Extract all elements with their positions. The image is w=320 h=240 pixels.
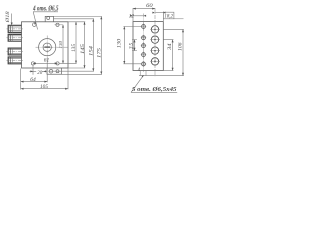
dim 20 ext from hole [32,65,34,75]
right vertical dim 135 [75,22,77,64]
bottom tab of body [47,68,62,74]
svg-text:12: 12 [129,14,135,20]
svg-text:35: 35 [130,43,135,50]
svg-text:130: 130 [58,40,63,48]
small hole 2 [142,36,146,40]
dim 130 line [123,27,125,64]
dim Ø18 line top-left [11,14,13,26]
right port column centerline [154,8,156,76]
center bore outer circle [39,39,56,56]
countersink ticks below plate [140,71,146,76]
svg-text:175: 175 [97,48,103,58]
svg-text:106: 106 [177,42,183,51]
dim 60 line [133,8,155,10]
svg-text:64: 64 [30,77,36,83]
tab1 centerline [7,28,24,30]
dim 130 ext top [123,26,141,28]
svg-text:34: 34 [166,43,173,50]
small hole 3 [142,44,146,48]
boss hole [47,17,50,20]
dim 60 ext left [132,8,134,21]
ext line tab bottom to dim 175 [62,73,103,75]
corner hole bottom-right [56,62,59,65]
right vertical dim 130 (hole to hole) [62,25,64,64]
svg-text:135: 135 [72,43,77,52]
corner hole top-right centerline [55,24,63,26]
leader to 5 holes label [131,75,144,92]
label underline 4 otv [33,11,58,13]
ext line boss top to dim 175 [54,16,103,18]
small hole 4 [142,53,146,57]
port circle 3 [151,47,158,54]
frame box 18,2 [163,12,174,19]
svg-text:145: 145 [80,44,86,54]
left view: top boss [45,16,53,21]
tab4 inner line [12,57,14,64]
right vertical dim 145 [84,22,86,68]
center bore inner circle [43,43,51,51]
left side tab 4 [8,57,21,64]
dim 35 ext ticks [132,40,137,51]
small hole 5 [142,62,146,66]
svg-text:18,2: 18,2 [164,14,173,20]
small hole 1 [142,25,146,29]
dim 18,2 ext right edge [162,12,164,22]
dim 34 line [172,40,174,71]
label underline 5 otv [131,91,177,93]
dim 18,2 line [155,12,163,14]
dim 106 bottom line [139,75,184,77]
corner hole top-right [56,23,59,26]
bottom tab hole left [49,69,53,73]
dim 64 line [21,81,48,83]
left side tab 2 [8,34,21,41]
tab2 inner line [12,34,14,41]
ext line body top to dims [68,21,85,23]
corner hole top-left [33,23,37,27]
dim 130 ext bottom [123,63,141,65]
dim 34 ext top [163,39,173,41]
dim 61 ext right [59,62,76,64]
horizontal centerline of body [36,46,69,48]
port circle 1 [151,26,158,33]
left view: main body outline [22,22,69,68]
svg-text:130: 130 [117,38,123,48]
dim 105 ext left lower [20,82,22,89]
tab3 inner line [12,48,14,55]
port circle 2 [151,36,158,43]
corner hole bottom-left [31,62,34,65]
svg-text:60: 60 [146,3,153,9]
svg-text:105: 105 [40,84,48,90]
line under box to right [174,18,184,20]
dim 106 line [182,29,184,75]
dim 105 ext right [67,69,69,90]
dim 105 line [21,88,68,90]
ext line body bottom to dims [68,67,85,69]
svg-text:61: 61 [44,58,50,64]
dim 64 ext left [20,69,22,83]
center dot [44,46,50,48]
ext line boss mid to dim 154 [54,18,95,20]
left side tab 1 [8,25,21,32]
dim 35 line [134,40,136,51]
svg-text:154: 154 [89,46,95,56]
bottom tab hole right [56,70,59,73]
left hole column centerline [143,14,145,72]
dim 20 line [30,70,47,72]
plate outline [133,22,163,71]
port circle 4 [151,58,158,65]
dim 34 ext bottom (plate bottom extended) [163,70,173,72]
ext line tab hole centerline to dim 154 [48,70,94,72]
right vertical dim 154 [92,19,94,71]
tab1 inner line [12,25,14,32]
dim 64 ext center [46,61,48,83]
leader for 4 holes label [33,12,37,30]
tab3 centerline [7,51,24,53]
right vertical dim 175 [100,17,102,75]
svg-text:Ø18: Ø18 [5,11,11,24]
dim 12 line [133,15,144,17]
left side tab 3 [8,48,21,55]
vertical centerline of body [46,36,48,61]
svg-text:5 отв. Ø6,5х45: 5 отв. Ø6,5х45 [132,86,177,93]
svg-text:20: 20 [37,70,42,76]
tab4 centerline [7,59,24,61]
svg-text:4 отв. Ø6,5: 4 отв. Ø6,5 [32,5,59,13]
dim 61 line [33,62,58,64]
dim 106 ext top from port1 [163,28,184,30]
tab2 centerline [7,37,24,39]
